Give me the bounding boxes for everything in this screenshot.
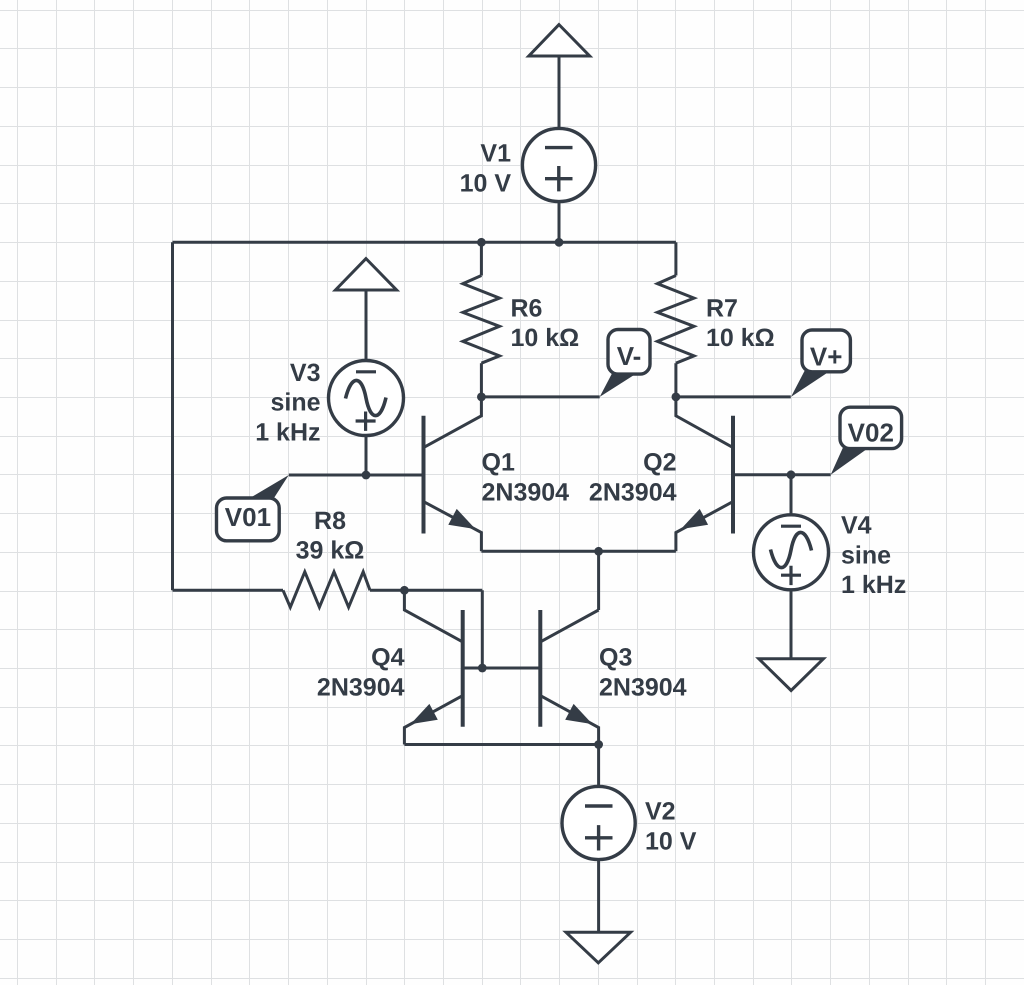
resistor R8 zigzag: [283, 572, 370, 607]
tag V01: [217, 475, 289, 541]
wire mirror base tie vertical: [481, 590, 484, 668]
V1 plus sign: [545, 166, 573, 191]
V4 minus sign: [781, 525, 801, 528]
power VCC arrow (top, above V1): [529, 25, 590, 56]
wire R8 left lead: [173, 589, 284, 592]
V4 sine wave: [771, 532, 812, 567]
wire node V- (R6 bottom to tag tip): [481, 395, 599, 398]
voltage source V1 circle: [522, 128, 595, 201]
ground (below V4): [759, 659, 824, 691]
svg-text:1 kHz: 1 kHz: [841, 571, 906, 599]
svg-text:2N3904: 2N3904: [589, 478, 677, 506]
node dot R6/top rail: [477, 238, 486, 247]
node dot R8/Q4 collector: [400, 586, 409, 595]
Q1 emitter arrow: [448, 509, 475, 529]
node dot V+: [672, 393, 681, 402]
wire shared emitter rail: [481, 550, 676, 553]
svg-text:2N3904: 2N3904: [317, 673, 405, 701]
svg-text:sine: sine: [270, 389, 320, 417]
svg-text:sine: sine: [841, 541, 891, 569]
wire R8 right lead: [370, 589, 482, 592]
node dot V-: [477, 393, 486, 402]
svg-text:V4: V4: [841, 512, 872, 540]
wire Q1 base: [289, 474, 424, 477]
node dot mirror emitters/V2: [594, 740, 603, 749]
transistor Q3 base bar: [538, 610, 542, 727]
svg-text:1 kHz: 1 kHz: [255, 418, 320, 446]
svg-text:2N3904: 2N3904: [599, 673, 687, 701]
voltage source V4 circle: [754, 515, 829, 590]
junction dots: [362, 238, 796, 749]
svg-text:V-: V-: [617, 341, 642, 371]
svg-text:10 V: 10 V: [645, 827, 697, 855]
svg-text:R7: R7: [706, 294, 738, 322]
svg-text:V2: V2: [645, 798, 676, 826]
wire top rail: [173, 241, 676, 244]
svg-text:10 kΩ: 10 kΩ: [511, 324, 580, 352]
wire V2 to ground: [597, 860, 600, 932]
svg-text:V1: V1: [480, 140, 511, 168]
V1 minus sign: [545, 146, 573, 149]
wire to V2: [597, 745, 600, 786]
Q4 emitter arrow: [411, 704, 438, 724]
svg-text:Q2: Q2: [643, 449, 676, 477]
svg-text:2N3904: 2N3904: [482, 478, 570, 506]
transistor Q1 collector wires: [424, 397, 482, 448]
svg-text:V3: V3: [290, 359, 321, 387]
svg-text:R8: R8: [314, 507, 346, 535]
svg-text:Q3: Q3: [599, 644, 632, 672]
svg-text:R6: R6: [511, 294, 543, 322]
resistor R6 (top lead, zigzag, bottom lead): [480, 242, 483, 275]
voltage source V3 circle: [329, 361, 404, 436]
wire V1 to top rail: [558, 202, 561, 243]
node dot V1/top rail: [555, 238, 564, 247]
wire left rail (feedback loop): [171, 242, 174, 590]
svg-text:10 kΩ: 10 kΩ: [706, 324, 775, 352]
Q3 emitter arrow: [565, 704, 592, 724]
tag V02: [831, 407, 902, 475]
V3 minus sign: [356, 370, 376, 373]
V2 minus sign: [585, 804, 613, 807]
svg-text:39 kΩ: 39 kΩ: [296, 537, 365, 565]
transistor Q2 collector wires: [676, 397, 733, 448]
wire node V+ (R7 bottom to tag tip): [676, 395, 791, 398]
node dot V02 (Q2 base): [787, 470, 796, 479]
ground (bottom): [566, 932, 631, 963]
transistor Q4 base bar: [461, 610, 465, 727]
V4 plus sign: [781, 566, 801, 585]
wire V4 to ground: [790, 590, 793, 659]
wire tail current feed: [597, 551, 600, 610]
tag V-: [600, 330, 650, 397]
wire VCC arrow to V1: [558, 56, 561, 128]
V3 sine wave: [346, 380, 387, 415]
wire mirror base rail: [463, 667, 541, 670]
node dot V01 (Q1 base): [362, 471, 371, 480]
svg-text:V02: V02: [848, 418, 894, 448]
svg-text:10 V: 10 V: [460, 169, 512, 197]
tag V+: [791, 330, 850, 397]
svg-text:Q4: Q4: [371, 644, 404, 672]
svg-text:Q1: Q1: [482, 449, 515, 477]
power VCC arrow (above V3): [336, 259, 397, 290]
wire mirror emitter rail: [404, 743, 598, 746]
node dot shared emitters: [594, 547, 603, 556]
wire Q2 base to V02 tip: [733, 473, 831, 476]
V2 plus sign: [585, 825, 613, 850]
transistor Q2 emitter wires: [676, 502, 733, 552]
svg-text:V01: V01: [225, 502, 271, 532]
transistor Q1 base bar: [422, 416, 426, 534]
transistor Q4 emitter wires: [404, 696, 462, 745]
transistor Q3 emitter wires: [540, 696, 598, 745]
wire V4 node vertical: [790, 475, 793, 515]
wire VCC arrow to V3: [365, 290, 368, 361]
transistor Q3 collector wires: [540, 610, 598, 642]
node dot mirror bases: [478, 664, 487, 673]
resistor R7 (top lead, zigzag, bottom lead): [674, 242, 677, 275]
transistor Q1 emitter wires: [424, 502, 482, 552]
transistor Q2 base bar: [731, 416, 735, 534]
V3 plus sign: [356, 412, 376, 431]
voltage source V2 circle: [562, 786, 635, 859]
svg-text:V+: V+: [810, 342, 843, 372]
Q2 emitter arrow: [681, 509, 708, 529]
wire V3 to Q1 base node: [365, 436, 368, 476]
transistor Q4 collector wires: [404, 590, 462, 642]
